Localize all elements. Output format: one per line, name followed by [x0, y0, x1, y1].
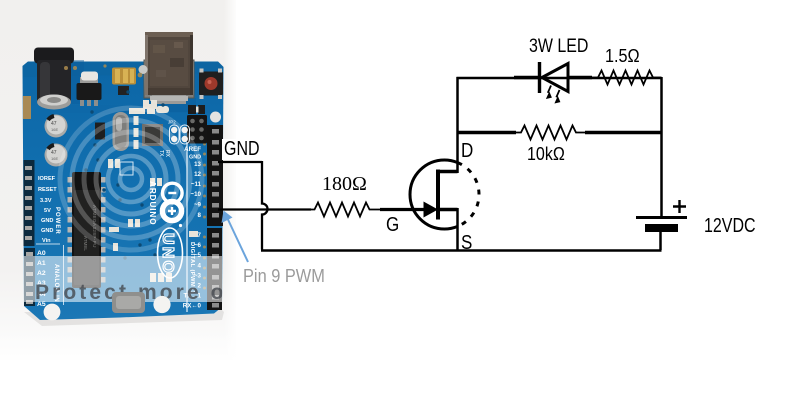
- crystal bottom: [112, 292, 145, 313]
- value label 1.5ohm for R3: [605, 46, 640, 67]
- pcb board: [23, 62, 224, 321]
- pin label D (drain): [461, 140, 473, 163]
- transistor Q1 gate lead: [380, 208, 426, 211]
- wire: battery negative stub to bottom rail: [659, 232, 662, 250]
- right header strip bottom: [207, 228, 222, 310]
- LED D1 leads: [514, 76, 539, 79]
- USB connector: [144, 60, 194, 98]
- big DIP chip ATmega328: [68, 172, 106, 288]
- svg-text:IOREF: IOREF: [38, 176, 56, 182]
- svg-text:7: 7: [198, 232, 202, 239]
- svg-text:POWER: POWER: [54, 207, 60, 235]
- label background box for GND: [222, 139, 263, 160]
- transistor Q1 gate arrow: [424, 202, 439, 218]
- pin label S (source): [461, 232, 472, 255]
- silver via left of USB: [139, 65, 148, 74]
- svg-text:5V: 5V: [44, 208, 51, 214]
- misc smd clusters: [108, 100, 198, 282]
- transistor Q1 source tap: [439, 208, 458, 212]
- left header strips (edge-on): [23, 96, 31, 119]
- wire: Arduino pin 9 to resistor R1: [218, 208, 311, 210]
- polyfuse (amber): [112, 68, 136, 85]
- ICSP header: [187, 115, 207, 144]
- LED D1 light emission arrows: [546, 86, 561, 104]
- value label 12VDC for BT1: [704, 215, 756, 238]
- transistor Q1 channel bar: [436, 170, 440, 220]
- right header strip top: [207, 125, 223, 226]
- value label 3W LED for D1: [529, 36, 588, 58]
- crystal: [113, 112, 130, 151]
- wire: source vertical to bottom rail: [456, 208, 459, 251]
- svg-text:8: 8: [198, 212, 202, 219]
- silkscreen right pins: [183, 146, 202, 310]
- wire: drain vertical to node D: [456, 77, 459, 173]
- silscreen separators: [186, 142, 188, 312]
- node label GND: [224, 138, 260, 161]
- wire: top rail (LED branch): [457, 77, 662, 79]
- white cap above regulator: [81, 72, 98, 81]
- board shadow: [24, 306, 224, 326]
- silkscreen texts left pins: [38, 176, 57, 244]
- photo backdrop: [0, 0, 236, 360]
- pin label G (gate): [386, 214, 399, 237]
- battery BT1 plus terminal mark: [673, 200, 686, 213]
- wire: middle rail left lead of R2: [457, 131, 516, 134]
- wire: Arduino GND pin to vertical run: [218, 161, 262, 163]
- value label 10kohm for R2: [527, 144, 565, 165]
- callout label Pin 9 PWM: [243, 266, 325, 287]
- resistor R2 10kohm zigzag: [516, 126, 586, 140]
- transistor Q1 drain tap: [437, 170, 458, 174]
- gold vias near top: [64, 64, 142, 77]
- electrolytic cap 1: [45, 115, 68, 138]
- svg-text:16E: 16E: [51, 127, 58, 132]
- wire: GND vertical run with hop over pin-9 wire: [262, 161, 268, 250]
- svg-text:RESET: RESET: [38, 187, 57, 193]
- svg-text:GND: GND: [41, 228, 53, 234]
- watermark rings: [60, 108, 202, 250]
- reset-en box: [120, 162, 133, 175]
- svg-text:3.3V: 3.3V: [40, 198, 52, 204]
- SOT23: [118, 86, 129, 95]
- transistor Q1 (N-FET) body circle: [410, 160, 445, 229]
- gold pads column inside right headers: [203, 143, 206, 290]
- svg-text:A0: A0: [37, 250, 46, 257]
- pcb darker patches: [23, 62, 224, 78]
- 3.3V LDO: [95, 123, 105, 140]
- wire: right rail to battery positive: [660, 77, 663, 217]
- value label 180ohm for R1: [322, 173, 367, 196]
- battery BT1 12VDC plates: [636, 216, 687, 219]
- svg-text:GND: GND: [41, 218, 53, 224]
- svg-text:ATMEL: ATMEL: [83, 236, 88, 251]
- Arduino Uno board photo (stylised): [22, 32, 241, 326]
- electrolytic cap 2: [45, 144, 68, 167]
- LED D1 triangle: [542, 64, 568, 92]
- svg-text:16E: 16E: [51, 156, 58, 161]
- reset button: [199, 72, 223, 96]
- big silver via under button: [210, 112, 221, 123]
- wire: bottom return rail (GND net): [261, 249, 662, 252]
- mounting holes: [44, 304, 61, 321]
- smd column: [134, 116, 139, 125]
- callout arrow to Arduino pin 9: [228, 219, 249, 263]
- svg-text:Vin: Vin: [42, 238, 51, 244]
- vias dots: [84, 90, 164, 259]
- resistor R3 1.5ohm zigzag: [592, 71, 662, 85]
- resistor R1 180ohm zigzag: [311, 203, 382, 217]
- LED D1 cathode bar: [538, 62, 541, 93]
- power jack: [34, 48, 74, 64]
- arduino logo: [163, 183, 183, 203]
- header pin glints: [212, 129, 219, 308]
- watermark band: [22, 256, 241, 304]
- wire: middle rail right lead of R2: [585, 131, 663, 134]
- 16U2 chip: [142, 124, 163, 146]
- smd row near top edge: [188, 105, 196, 114]
- voltage regulator: [80, 77, 98, 84]
